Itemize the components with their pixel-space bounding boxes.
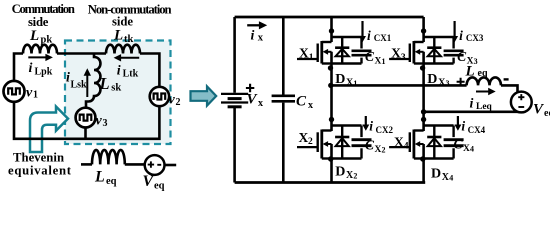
- svg-text:3: 3: [103, 118, 108, 129]
- svg-text:X: X: [394, 134, 404, 149]
- svg-text:X: X: [299, 46, 309, 61]
- svg-text:v: v: [169, 93, 176, 108]
- svg-text:eq: eq: [544, 108, 550, 119]
- svg-text:4: 4: [449, 173, 453, 182]
- svg-text:Lsk: Lsk: [71, 79, 88, 90]
- svg-text:D: D: [335, 165, 345, 180]
- svg-text:i: i: [117, 63, 121, 78]
- svg-text:i: i: [459, 28, 463, 43]
- svg-text:1: 1: [353, 79, 357, 88]
- svg-text:Commutation: Commutation: [12, 2, 75, 16]
- svg-text:1: 1: [382, 57, 386, 66]
- svg-text:Leq: Leq: [476, 102, 493, 112]
- svg-text:4: 4: [404, 142, 409, 152]
- svg-text:2: 2: [176, 97, 181, 108]
- svg-text:eq: eq: [478, 68, 488, 79]
- svg-text:i: i: [66, 71, 70, 86]
- svg-text:i: i: [369, 119, 373, 134]
- svg-text:4: 4: [470, 145, 474, 154]
- svg-text:x: x: [258, 98, 263, 109]
- svg-text:V: V: [143, 173, 155, 190]
- svg-text:pk: pk: [41, 35, 53, 46]
- svg-text:2: 2: [308, 137, 313, 147]
- svg-text:Thevenin: Thevenin: [13, 150, 64, 164]
- svg-text:eq: eq: [154, 181, 165, 192]
- svg-text:equivalent: equivalent: [8, 163, 72, 177]
- svg-text:2: 2: [382, 146, 386, 155]
- svg-text:L: L: [113, 28, 123, 44]
- svg-text:X: X: [391, 46, 401, 61]
- svg-text:x: x: [308, 100, 313, 111]
- svg-text:X: X: [299, 130, 309, 145]
- svg-text:x: x: [258, 32, 264, 43]
- svg-text:Lpk: Lpk: [35, 67, 53, 78]
- svg-text:X: X: [375, 145, 382, 155]
- svg-text:C: C: [457, 49, 467, 64]
- svg-text:CX1: CX1: [374, 33, 392, 43]
- svg-text:eq: eq: [106, 176, 117, 187]
- svg-text:C: C: [454, 137, 464, 152]
- svg-text:side: side: [28, 15, 49, 29]
- svg-text:X: X: [463, 144, 470, 154]
- svg-text:i: i: [251, 29, 255, 44]
- svg-text:CX4: CX4: [468, 125, 486, 135]
- svg-text:CX3: CX3: [466, 33, 484, 43]
- svg-text:X: X: [375, 57, 382, 67]
- svg-text:v: v: [26, 86, 33, 101]
- svg-text:sk: sk: [111, 83, 121, 94]
- svg-text:3: 3: [446, 79, 450, 88]
- svg-text:i: i: [461, 119, 465, 134]
- svg-text:CX2: CX2: [376, 125, 394, 135]
- svg-text:i: i: [29, 61, 33, 76]
- svg-text:V: V: [247, 92, 259, 108]
- svg-text:Ltk: Ltk: [123, 69, 139, 80]
- svg-text:i: i: [470, 96, 474, 111]
- svg-text:tk: tk: [124, 34, 133, 45]
- svg-text:D: D: [335, 72, 345, 87]
- svg-text:D: D: [427, 72, 437, 87]
- svg-text:C: C: [296, 94, 307, 110]
- svg-text:side: side: [112, 14, 133, 28]
- svg-text:L: L: [94, 169, 105, 186]
- svg-text:L: L: [29, 28, 39, 44]
- svg-text:D: D: [431, 167, 441, 182]
- svg-text:1: 1: [33, 90, 38, 101]
- svg-text:L: L: [99, 74, 110, 93]
- svg-text:i: i: [367, 28, 371, 43]
- svg-text:C: C: [365, 49, 375, 64]
- svg-text:3: 3: [401, 53, 406, 63]
- svg-text:L: L: [465, 64, 475, 80]
- svg-text:C: C: [365, 138, 375, 153]
- svg-text:v: v: [96, 114, 103, 129]
- svg-text:2: 2: [353, 171, 357, 180]
- svg-text:1: 1: [309, 53, 314, 63]
